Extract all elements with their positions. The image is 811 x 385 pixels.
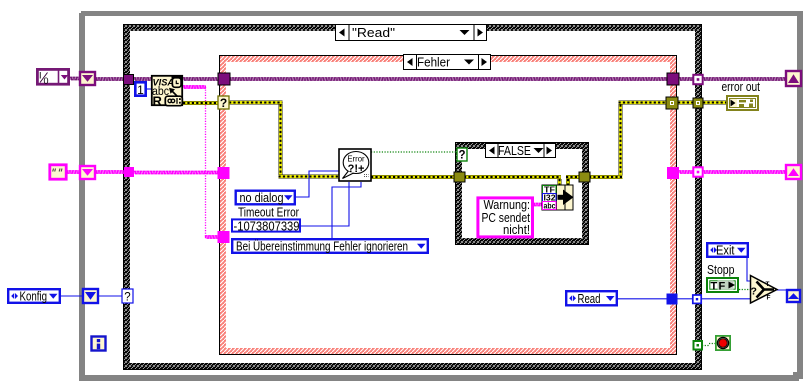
tunnel: VISA left (case Read) (124, 75, 134, 85)
tunnel: error right (Fehler) (666, 97, 678, 109)
error out label (722, 80, 761, 94)
wire: exception action to error handler (332, 182, 361, 238)
empty string constant (50, 165, 66, 179)
shift register left: Konfig (83, 289, 98, 303)
wire: error inside FALSE right (566, 175, 580, 179)
svg-text:F: F (767, 295, 771, 302)
svg-text:Bei Übereinstimmung Fehler ign: Bei Übereinstimmung Fehler ignorieren (236, 240, 408, 254)
svg-text:nicht!: nicht! (503, 223, 530, 237)
tunnel: error right (FALSE) (579, 172, 590, 182)
svg-text:T: T (711, 280, 718, 292)
case structure "Read" border (123, 24, 702, 370)
wire: Konfig shift register to case selector (98, 295, 123, 297)
svg-text:T: T (766, 281, 770, 288)
wire: string constant to left shift register (66, 171, 80, 173)
svg-text:?: ? (124, 292, 130, 304)
tunnel: string right (Fehler) (667, 167, 679, 179)
Timeout Error label (238, 205, 299, 219)
svg-text:?: ? (751, 286, 757, 298)
wire: VISA resource case tunnel to right shift register (703, 78, 786, 80)
iteration terminal (92, 337, 106, 351)
svg-text:Fehler: Fehler (417, 56, 450, 70)
wire: VISA resource across Fehler case (229, 78, 667, 80)
numeric constant 1 (135, 82, 145, 97)
shift register right: select result (787, 290, 800, 302)
tunnel: string left (case Read) (124, 167, 134, 177)
error code constant -1073807339 (232, 219, 300, 233)
loop condition terminal (stop button) (716, 336, 730, 350)
wire: string case tunnel to Fehler tunnel (134, 171, 218, 173)
tunnel: VISA left (Fehler) (218, 73, 230, 85)
wire: string case tunnel to right shift register (703, 171, 786, 173)
tunnel: error right (case Read) (693, 98, 703, 108)
wire: error handler to FALSE tunnel (371, 175, 455, 179)
svg-text:"Read": "Read" (352, 26, 395, 40)
case structure "FALSE" selector label (486, 143, 556, 158)
wire: VISA resource shift register to case tunnel (95, 78, 124, 80)
Warnung string constant (478, 198, 533, 237)
tunnel: Read value right (Fehler) (667, 294, 678, 305)
Konfig local variable (8, 289, 60, 303)
no dialog ring constant (236, 191, 295, 205)
shift register right: string (786, 165, 801, 179)
VISA resource name control (37, 69, 68, 86)
svg-text:no dialog: no dialog (240, 191, 284, 205)
wire: error to error handler (279, 175, 340, 179)
wire: VISA resource case tunnel to VISA Read (134, 78, 152, 80)
tunnel: string right (case Read) (693, 167, 702, 176)
svg-text:error out: error out (722, 80, 761, 94)
case structure "Fehler" selector label (404, 54, 491, 70)
wire: string shift register to case tunnel (95, 171, 124, 173)
wire: error vertical drop (279, 105, 283, 176)
Read local variable (566, 291, 617, 306)
svg-text:Timeout Error: Timeout Error (238, 205, 299, 219)
wire: VISA Read data out (183, 86, 206, 88)
wire: Stopp to Select (739, 289, 751, 291)
svg-text:F: F (719, 280, 726, 292)
wire: error VISA Read to Fehler selector (183, 101, 219, 105)
selector tunnel ? (FALSE) (457, 148, 467, 162)
VISA Read function (152, 76, 183, 109)
wire: VISA resource Fehler tunnel to case tunnel (679, 78, 693, 80)
exception action ring constant (232, 239, 428, 253)
wire: error status to FALSE selector (371, 151, 457, 153)
wire: error code constant to error handler (301, 182, 349, 226)
wire: error inside FALSE left (464, 175, 561, 179)
shift register right: VISA (786, 71, 801, 86)
error handler subVI (339, 149, 371, 181)
svg-text:abc: abc (544, 202, 556, 211)
wire: error case tunnel to error out (703, 101, 726, 105)
tunnel: VISA right (case Read) (693, 75, 702, 84)
tunnel: stop boolean (case Read) (694, 341, 703, 350)
wire: error stub into Bundle (558, 179, 562, 185)
selector tunnel ? (Fehler) (218, 96, 229, 110)
wire: error FALSE tunnel to elbow (589, 175, 623, 179)
wire: VISA resource from I/O control to left shift register (70, 77, 80, 79)
svg-text:-1073807339: -1073807339 (234, 220, 300, 234)
Stopp boolean terminal (707, 278, 738, 292)
wire: Select output to right shift register (777, 290, 793, 292)
wire: error Fehler tunnel to case tunnel (678, 101, 693, 105)
wire: boolean tunnel to loop condition (702, 344, 715, 346)
wire: no dialog to error handler (295, 171, 339, 197)
svg-text:?: ? (220, 96, 227, 110)
case structure "Fehler" border (219, 55, 677, 355)
Select function (751, 276, 778, 304)
svg-text:Stopp: Stopp (707, 263, 735, 277)
wire: error selector tunnel into case (229, 101, 283, 105)
svg-text:I: I (39, 71, 42, 81)
svg-text:0: 0 (44, 76, 49, 86)
wire: numeric 1 to VISA Read (146, 88, 152, 90)
tunnel: error left (FALSE) (454, 172, 465, 182)
wire: string vertical branch (205, 87, 207, 237)
wire: string branch to lower Fehler tunnel (206, 236, 219, 238)
case structure "FALSE" border (455, 142, 589, 245)
wire: string Fehler tunnel to case tunnel right (679, 171, 693, 173)
case structure "Read" selector label (336, 24, 487, 41)
svg-text:1: 1 (137, 83, 144, 97)
wire: Read Fehler tunnel to case tunnel (677, 298, 693, 300)
Exit local variable (707, 243, 748, 257)
wire: error elbow to Fehler tunnel (619, 101, 667, 105)
tunnel: string left lower (Fehler) (218, 231, 230, 243)
wire: Exit to Select (747, 258, 750, 281)
svg-text:FALSE: FALSE (498, 144, 531, 158)
svg-text:Exit: Exit (716, 244, 735, 258)
wire: VISA resource VISA Read to Fehler tunnel (183, 78, 219, 80)
tunnel: VISA right (Fehler) (667, 73, 679, 85)
wire: Konfig to left shift register (61, 295, 84, 297)
tunnel: Read value right (case Read) (693, 295, 701, 303)
svg-text:R: R (153, 94, 163, 109)
svg-text:?!+: ?!+ (348, 163, 365, 175)
wire: error vertical rise (619, 105, 623, 176)
Stopp label (707, 263, 735, 277)
wire: Read case tunnel to Select (701, 298, 750, 300)
wire: error stub out of Bundle (566, 179, 570, 185)
shift register left: VISA (80, 72, 95, 85)
wire: Read constant to Fehler tunnel (618, 298, 667, 300)
svg-text:Konfig: Konfig (20, 290, 48, 304)
shift register left: string (80, 166, 95, 179)
selector tunnel ? (case Read) (122, 289, 133, 304)
svg-text:?: ? (458, 150, 465, 162)
wire: Warnung string to Bundle abc (533, 203, 542, 205)
svg-text:Read: Read (578, 292, 601, 306)
Bundle function (542, 185, 574, 211)
tunnel: string left upper (Fehler) (218, 167, 230, 179)
error out indicator (727, 96, 758, 110)
